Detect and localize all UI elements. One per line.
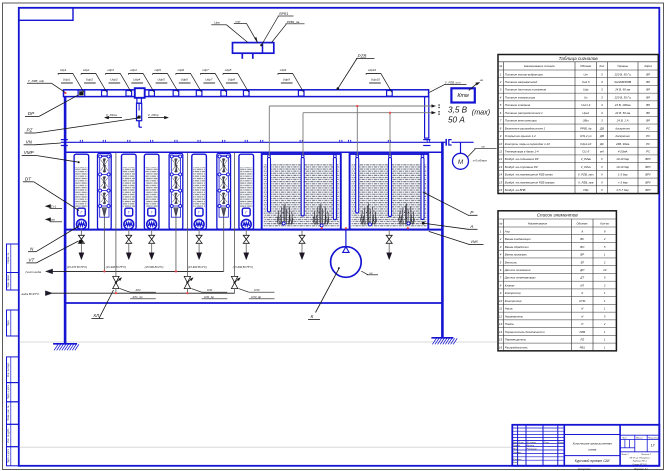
fold line upper — [20, 341, 497, 343]
feed water line with right arrow — [22, 291, 235, 296]
svg-text:ДВ: ДВ — [599, 134, 604, 138]
svg-text:220 В, 50 Гц: 220 В, 50 Гц — [614, 95, 632, 99]
position sensor DP9 — [298, 91, 304, 97]
svg-text:Н.контр.: Н.контр. — [513, 459, 523, 461]
svg-text:Насос: Насос — [505, 307, 514, 311]
svg-text:Udp8: Udp8 — [228, 78, 236, 82]
label A with leader — [425, 223, 478, 229]
trolley PZ with pneumatic cylinder — [135, 88, 145, 127]
drain temperature label 2 — [106, 265, 126, 269]
svg-text:Подп. и дата: Подп. и дата — [7, 449, 10, 464]
air bubbler agitator A3 — [361, 204, 377, 225]
svg-text:Ктм: Ктм — [457, 93, 469, 99]
controller KTM box — [451, 88, 474, 102]
label V_PZpr with right arrow — [148, 113, 169, 119]
bath VO-A — [262, 154, 341, 230]
svg-text:Кол: Кол — [600, 64, 605, 68]
svg-text:сdp1: сdp1 — [60, 68, 67, 72]
pneumatic distributor RPR1 body — [233, 43, 274, 59]
svg-text:РВ1: РВ1 — [580, 345, 586, 349]
svg-text:Группа ИУ1-51: Группа ИУ1-51 — [633, 464, 647, 466]
svg-text:Возбуд. на перемещение PZВ впр: Возбуд. на перемещение PZВ вправо — [505, 180, 555, 184]
water valve KL2 — [184, 153, 193, 294]
svg-text:МГТУ им. Н.Баумана: МГТУ им. Н.Баумана — [630, 457, 651, 459]
svg-text:Г: Г — [151, 211, 153, 215]
svg-text:Подп.: Подп. — [544, 441, 550, 444]
label pair sdp7/Udp7 with leader — [200, 68, 226, 92]
node KL1 bottom — [115, 292, 117, 294]
svg-text:24В, 90ма: 24В, 90ма — [615, 142, 630, 146]
svg-text:РZ: РZ — [580, 338, 584, 342]
svg-text:ВР: ВР — [646, 95, 650, 99]
signal wire bus 1 (level sensors to KTM) — [269, 104, 439, 156]
svg-text:220 В, 50 Гц: 220 В, 50 Гц — [614, 72, 632, 76]
svg-text:РРВ1_дв: РРВ1_дв — [287, 20, 300, 24]
bubbler inlet circle 1 — [282, 222, 285, 225]
svg-text:10-10 бар: 10-10 бар — [616, 165, 629, 169]
svg-text:Udp9: Udp9 — [283, 78, 291, 82]
svg-text:V_PZнз: V_PZнз — [581, 165, 592, 169]
svg-text:вода В=15°С: вода В=15°С — [22, 292, 41, 296]
svg-text:КЛ: КЛ — [580, 283, 584, 287]
svg-text:Питание вентилятора: Питание вентилятора — [505, 119, 537, 123]
svg-text:Перемещатель: Перемещатель — [505, 338, 527, 342]
node bath B bottom — [407, 227, 409, 229]
svg-text:Компрессор: Компрессор — [505, 291, 521, 295]
svg-text:2: 2 — [603, 283, 606, 287]
node rail left end — [64, 92, 66, 94]
svg-text:Udp1: Udp1 — [63, 78, 71, 82]
label pair sdp4/Udp4 with leader — [128, 68, 154, 92]
svg-text:(15-600 В=75°С): (15-600 В=75°С) — [233, 265, 253, 269]
svg-text:КЛ2: КЛ2 — [207, 288, 213, 292]
svg-text:12: 12 — [499, 314, 503, 318]
svg-text:Udp2: Udp2 — [86, 78, 94, 82]
text 50A — [448, 115, 465, 124]
svg-text:КЛ1_др: КЛ1_др — [133, 295, 143, 299]
heater rod P6 — [421, 155, 424, 220]
svg-text:Ванна промывки: Ванна промывки — [505, 253, 528, 257]
svg-text:Питание распределителя 1: Питание распределителя 1 — [505, 111, 543, 115]
label DP with leader — [25, 95, 79, 117]
svg-text:ВР: ВР — [646, 119, 650, 123]
svg-text:КЛ3_др: КЛ3_др — [251, 295, 261, 299]
machine bottom line — [64, 229, 442, 231]
svg-text:Т.контр.: Т.контр. — [513, 452, 522, 454]
svg-text:Контроллер: Контроллер — [505, 299, 522, 303]
svg-text:Питание клапанов: Питание клапанов — [505, 103, 531, 107]
svg-text:VВр: VВр — [583, 188, 589, 192]
svg-text:Дата: Дата — [557, 442, 565, 444]
label pair sdp8/Udp8 with leader — [223, 68, 249, 92]
signal wire bus 2 (level sensors to KTM) — [303, 111, 440, 156]
drain temperature label 4 — [188, 265, 207, 269]
svg-text:Сt1-5: Сt1-5 — [582, 150, 589, 154]
node compressor junction — [345, 227, 347, 229]
svg-text:Лист: Лист — [517, 442, 524, 444]
svg-text:16: 16 — [499, 188, 503, 192]
svg-text:Лит.: Лит. — [621, 438, 628, 440]
label pair sdp6/Udp6 with leader — [176, 68, 202, 92]
svg-text:мА: мА — [600, 150, 604, 154]
svg-text:Возбуд. на подъемник PZ: Возбуд. на подъемник PZ — [505, 157, 539, 161]
ground foundation right — [431, 338, 457, 345]
drain temperature label 3 — [145, 265, 164, 269]
label KL with leader — [92, 290, 114, 318]
svg-text:Uкл1,3: Uкл1,3 — [581, 103, 590, 107]
text Format A1 — [634, 468, 648, 471]
svg-text:ВР: ВР — [646, 72, 650, 76]
svg-text:сdp9: сdp9 — [280, 68, 287, 72]
svg-text:Возбуд. на опускание PZ: Возбуд. на опускание PZ — [505, 165, 538, 169]
svg-text:А: А — [580, 229, 583, 233]
svg-text:15: 15 — [499, 180, 503, 184]
svg-text:сdp4: сdp4 — [130, 68, 137, 72]
svg-text:ДТ: ДТ — [579, 276, 584, 280]
bath VMP2 (tank with heater N and sensor DT) — [122, 154, 137, 229]
svg-text:№: № — [499, 221, 502, 225]
svg-text:Взам. инв. №: Взам. инв. № — [7, 405, 10, 420]
svg-text:Температура в баках 1-4: Температура в баках 1-4 — [505, 150, 539, 154]
svg-text:Uрв: Uрв — [214, 21, 220, 25]
svg-text:(15-500 В=4°С): (15-500 В=4°С) — [145, 265, 164, 269]
svg-text:10: 10 — [499, 299, 503, 303]
title block (GOST stamp) — [512, 425, 659, 466]
drain valve VT4 with outlet arrow — [196, 230, 202, 260]
svg-text:ВР: ВР — [646, 103, 650, 107]
svg-text:Уровень: Уровень — [617, 64, 628, 68]
node bus junction 2 — [389, 112, 391, 114]
svg-text:Г: Г — [81, 211, 83, 215]
svg-text:Агр: Агр — [504, 229, 510, 233]
spray column C1 with nozzles — [98, 153, 112, 229]
svg-text:ВТ: ВТ — [581, 260, 585, 264]
svg-text:DP: DP — [28, 111, 35, 116]
svg-text:Питание нагревателей: Питание нагревателей — [505, 80, 538, 84]
svg-text:Питание датчиков положения: Питание датчиков положения — [505, 88, 547, 92]
svg-text:2: 2 — [603, 322, 606, 326]
svg-text:10: 10 — [603, 268, 607, 272]
svg-text:Сdp1-10: Сdp1-10 — [580, 142, 591, 146]
label Urv with leader — [211, 21, 248, 43]
svg-text:4-20мА: 4-20мА — [618, 150, 628, 154]
svg-text:VMP: VMP — [24, 150, 35, 155]
svg-text:Распределитель: Распределитель — [505, 345, 528, 349]
svg-text:Перв. прим.: Перв. прим. — [7, 274, 10, 288]
svg-text:0,5-7 бар: 0,5-7 бар — [617, 188, 629, 192]
svg-text:Питание компрессора: Питание компрессора — [505, 95, 536, 99]
svg-text:V_PZВ_прв: V_PZВ_прв — [578, 180, 594, 184]
svg-text:КЛ2_др: КЛ2_др — [204, 295, 214, 299]
label P with leader — [423, 192, 478, 216]
bubbler inlet circle 3 — [369, 223, 372, 226]
svg-text:ВР: ВР — [646, 80, 650, 84]
text Kopiroval — [578, 468, 591, 471]
compressor K — [331, 230, 362, 278]
svg-text:Р: Р — [581, 322, 583, 326]
svg-text:Наименование: Наименование — [528, 221, 548, 225]
drain valve VT6 with outlet arrow — [299, 230, 305, 260]
svg-text:RPR1: RPR1 — [279, 12, 288, 16]
heater rod P3 — [333, 155, 336, 220]
label pair sdp5/Udp5 with leader — [153, 68, 179, 92]
svg-text:2: 2 — [499, 237, 502, 241]
bubbler inlet circle 4 — [407, 222, 410, 225]
svg-text:Иванов: Иванов — [527, 445, 535, 447]
svg-text:24 В, 90 ма: 24 В, 90 ма — [614, 88, 630, 92]
svg-text:КЛ: КЛ — [94, 313, 101, 318]
svg-text:ивt: ивt — [51, 218, 55, 222]
svg-text:Вентиль: Вентиль — [505, 260, 518, 264]
position sensor DP6 — [196, 91, 202, 97]
guide rail VN with station ticks — [61, 140, 443, 142]
svg-text:РZВ: РZВ — [358, 53, 367, 58]
svg-text:Udp10: Udp10 — [371, 78, 380, 82]
drain temperature label 1 — [67, 265, 87, 269]
drain valve VT2 with outlet arrow — [126, 230, 132, 260]
svg-text:PZ: PZ — [27, 128, 33, 133]
node feed 2 — [175, 270, 177, 272]
air bubbler agitator A4 — [399, 204, 415, 225]
fold line lower — [20, 446, 513, 448]
svg-text:Udp4: Udp4 — [133, 78, 141, 82]
label iv arrow — [469, 78, 484, 90]
svg-text:VNб: VNб — [471, 240, 479, 244]
svg-text:Кол-во: Кол-во — [600, 221, 609, 225]
svg-text:11: 11 — [499, 307, 502, 311]
heater rod P4 — [356, 155, 359, 213]
svg-text:Udp: Udp — [583, 88, 589, 92]
detachable connector to motor — [442, 139, 473, 154]
label pair sdp9/Udp9 with leader — [278, 68, 304, 92]
svg-text:ВР: ВР — [646, 88, 650, 92]
svg-text:РZВ: РZВ — [580, 330, 586, 334]
svg-text:Инв. № дубл.: Инв. № дубл. — [7, 428, 10, 443]
svg-text:Подп.: Подп. — [7, 319, 10, 326]
svg-text:Питание мотор-вибратора: Питание мотор-вибратора — [505, 72, 543, 76]
svg-text:Датчик положения: Датчик положения — [504, 268, 531, 272]
svg-text:Масса: Масса — [636, 438, 643, 440]
svg-text:РРВ1 дв: РРВ1 дв — [580, 126, 592, 130]
signal table (Tablica signalov) — [498, 55, 658, 194]
water valve KL1 — [113, 153, 122, 294]
svg-text:М: М — [458, 159, 464, 166]
label pair sdp10/Udp10 with leader — [366, 68, 392, 92]
svg-text:У_РZВ_шт: У_РZВ_шт — [445, 81, 461, 85]
svg-text:Утв.: Утв. — [513, 462, 518, 464]
svg-text:изр: изр — [236, 19, 241, 23]
svg-text:сdp8: сdp8 — [225, 68, 232, 72]
svg-text:Ванна обработки: Ванна обработки — [505, 245, 529, 249]
element list table (Spisok elementov) — [498, 211, 616, 351]
svg-text:Наименование сигнала: Наименование сигнала — [524, 64, 555, 68]
svg-text:схема: схема — [588, 447, 597, 451]
node bus junction 1 — [356, 105, 358, 107]
svg-text:КЛ3: КЛ3 — [254, 288, 260, 292]
svg-text:VN: VN — [26, 139, 33, 144]
heater rod P2 — [301, 155, 304, 216]
label box KL1 — [120, 288, 156, 299]
clean water line with left arrow — [26, 269, 224, 274]
label RRV1 dv with leader — [272, 20, 305, 43]
label box KL3 — [239, 288, 275, 299]
svg-text:Г: Г — [128, 211, 130, 215]
svg-text:Открытие крышки 1,2: Открытие крышки 1,2 — [505, 134, 536, 138]
text 3.5V — [448, 105, 468, 114]
svg-text:+-3 бар: +-3 бар — [618, 180, 628, 184]
svg-text:24 В, 1 А: 24 В, 1 А — [616, 119, 629, 123]
svg-text:№ докум.: № докум. — [527, 441, 537, 444]
svg-text:(15-270 В=70°С): (15-270 В=70°С) — [67, 265, 87, 269]
svg-text:Помпа: Помпа — [505, 322, 514, 326]
label VMP with leader — [22, 150, 80, 163]
node feed 1 — [103, 270, 105, 272]
svg-text:14: 14 — [499, 330, 503, 334]
svg-text:V_PZВ_лвт: V_PZВ_лвт — [578, 173, 595, 177]
label N with leader — [28, 226, 79, 252]
right stand column — [441, 142, 444, 338]
svg-text:(чист вода: (чист вода — [26, 270, 42, 274]
svg-text:дискретно: дискретно — [615, 126, 630, 130]
node bath A bottom — [321, 227, 323, 229]
bath VMP3 (tank with heater N and sensor DT) — [144, 154, 159, 229]
drain valve VT1 with outlet arrow — [78, 230, 84, 260]
label PZ with leader — [25, 117, 139, 133]
spray column C2 with nozzles — [169, 153, 183, 229]
air bubbler agitator A2 — [313, 204, 329, 225]
svg-text:сdp5: сdp5 — [154, 68, 161, 72]
text max — [472, 108, 490, 117]
svg-text:ВР: ВР — [580, 253, 584, 257]
position sensor DP5 — [173, 91, 179, 97]
svg-text:Возбуд. на ВПВ: Возбуд. на ВПВ — [505, 188, 526, 192]
svg-text:ДК: ДК — [599, 142, 604, 146]
svg-text:(max): (max) — [472, 108, 490, 117]
label box KL2 — [191, 288, 227, 299]
label VNb with leader — [429, 231, 484, 244]
machine top line — [64, 151, 442, 153]
svg-text:Реутский: Реутский — [527, 448, 538, 451]
svg-text:У_РZВ_сdр: У_РZВ_сdр — [28, 79, 44, 83]
svg-text:Обознач.: Обознач. — [576, 221, 588, 225]
svg-text:Разраб.: Разраб. — [513, 445, 521, 447]
svg-text:Включение распределителя 1: Включение распределителя 1 — [505, 126, 546, 130]
air bubbler agitator A1 — [277, 204, 293, 225]
position sensor DP8 — [243, 91, 249, 97]
label Uv with leader — [468, 145, 497, 157]
water valve KL3 — [231, 153, 240, 294]
svg-text:Ограничитель безопасности: Ограничитель безопасности — [505, 330, 545, 334]
svg-text:Листов 1: Листов 1 — [640, 454, 652, 456]
svg-text:п-0 об/мин: п-0 об/мин — [473, 158, 488, 162]
drain valve VT7 with outlet arrow — [386, 230, 392, 260]
svg-text:сdp2: сdp2 — [83, 68, 90, 72]
label PZB with leader to rail — [337, 53, 375, 89]
svg-text:сdp7: сdp7 — [202, 68, 209, 72]
motor M (vibrator) — [453, 153, 469, 169]
svg-text:Список элементов: Список элементов — [537, 213, 579, 218]
svg-text:1-3 бар: 1-3 бар — [618, 173, 628, 177]
svg-text:11: 11 — [499, 150, 502, 154]
text n-0 ob/min — [473, 158, 488, 162]
svg-text:3,5 В: 3,5 В — [448, 105, 468, 114]
bath VMP4 (tank with heater N and sensor DT) — [192, 154, 207, 229]
svg-text:Uрв1: Uрв1 — [582, 111, 589, 115]
svg-text:14: 14 — [499, 173, 503, 177]
svg-text:16: 16 — [499, 345, 503, 349]
spray feed pipe 2 — [175, 219, 177, 272]
svg-text:50 А: 50 А — [448, 115, 465, 124]
svg-text:ив: ив — [482, 145, 486, 149]
svg-text:10-10 бар: 10-10 бар — [616, 157, 629, 161]
label pair sdp3/Udp3 with leader — [106, 68, 132, 92]
svg-text:Курсовой проект САУ: Курсовой проект САУ — [575, 459, 611, 463]
svg-text:24 В, 50 ма: 24 В, 50 ма — [614, 111, 630, 115]
svg-text:V_PZвв: V_PZвв — [581, 157, 592, 161]
svg-text:UВт: UВт — [583, 119, 590, 123]
label Un1 arrow — [45, 218, 62, 222]
svg-text:Г: Г — [198, 211, 200, 215]
rail right end column — [423, 97, 430, 146]
svg-text:сdp10: сdp10 — [368, 68, 377, 72]
position sensor DP1 — [78, 90, 85, 96]
label izr with leader — [234, 19, 258, 42]
svg-text:Инв. № подл.: Инв. № подл. — [7, 362, 10, 377]
position sensor DP7 — [221, 91, 227, 97]
svg-text:15: 15 — [499, 338, 503, 342]
svg-text:Клапан: Клапан — [505, 283, 515, 287]
svg-text:КЛ1,2 уп: КЛ1,2 уп — [580, 134, 592, 138]
label pair sdp1/Udp1 with leader — [58, 68, 84, 92]
bath VO-B — [350, 154, 429, 230]
svg-text:Udp5: Udp5 — [157, 78, 165, 82]
svg-text:Лист 1: Лист 1 — [620, 454, 629, 456]
svg-text:Возбуд. на перемещение PZВ вле: Возбуд. на перемещение PZВ влево — [505, 173, 553, 177]
drain valve VT3 with outlet arrow — [149, 230, 155, 260]
label pair sdp2/Udp2 with leader — [81, 68, 107, 92]
svg-text:Ванна конденсации: Ванна конденсации — [505, 237, 531, 241]
left support column — [64, 97, 67, 344]
drain temperature label 5 — [233, 265, 253, 269]
label DT with leader — [23, 176, 79, 210]
ground foundation left — [53, 344, 79, 351]
position sensor DP10 — [387, 91, 393, 97]
svg-text:2: 2 — [499, 80, 502, 84]
left margin stamp boxes — [7, 244, 19, 466]
svg-text:Справ. №: Справ. № — [7, 252, 10, 263]
svg-text:Сt-1: Сt-1 — [51, 204, 57, 208]
label Uk — [361, 271, 378, 275]
svg-text:(15-600 В=4°С): (15-600 В=4°С) — [188, 265, 207, 269]
label RPR1 with leader — [260, 12, 293, 46]
bath VMP1 (tank with heater N and sensor DT) — [74, 154, 89, 229]
svg-text:Контроль тары в переходах 1-10: Контроль тары в переходах 1-10 — [505, 142, 550, 146]
top-left reuse box — [19, 8, 73, 20]
label U_PZB_sdr at rail left — [27, 79, 65, 92]
svg-text:Нагреватель: Нагреватель — [505, 314, 524, 318]
drain valve VT5 with outlet arrow — [243, 230, 249, 260]
label VN with leader — [24, 139, 61, 144]
svg-text:10: 10 — [499, 142, 503, 146]
svg-text:V_PZпр: V_PZпр — [148, 113, 159, 117]
left column joint bars — [61, 140, 68, 146]
svg-text:Подп. и дата: Подп. и дата — [7, 384, 10, 399]
heater rod P1 — [268, 155, 271, 212]
svg-text:12: 12 — [499, 157, 503, 161]
svg-text:№: № — [499, 64, 502, 68]
position sensor DP3 — [126, 91, 132, 97]
air stone dot — [422, 222, 425, 225]
